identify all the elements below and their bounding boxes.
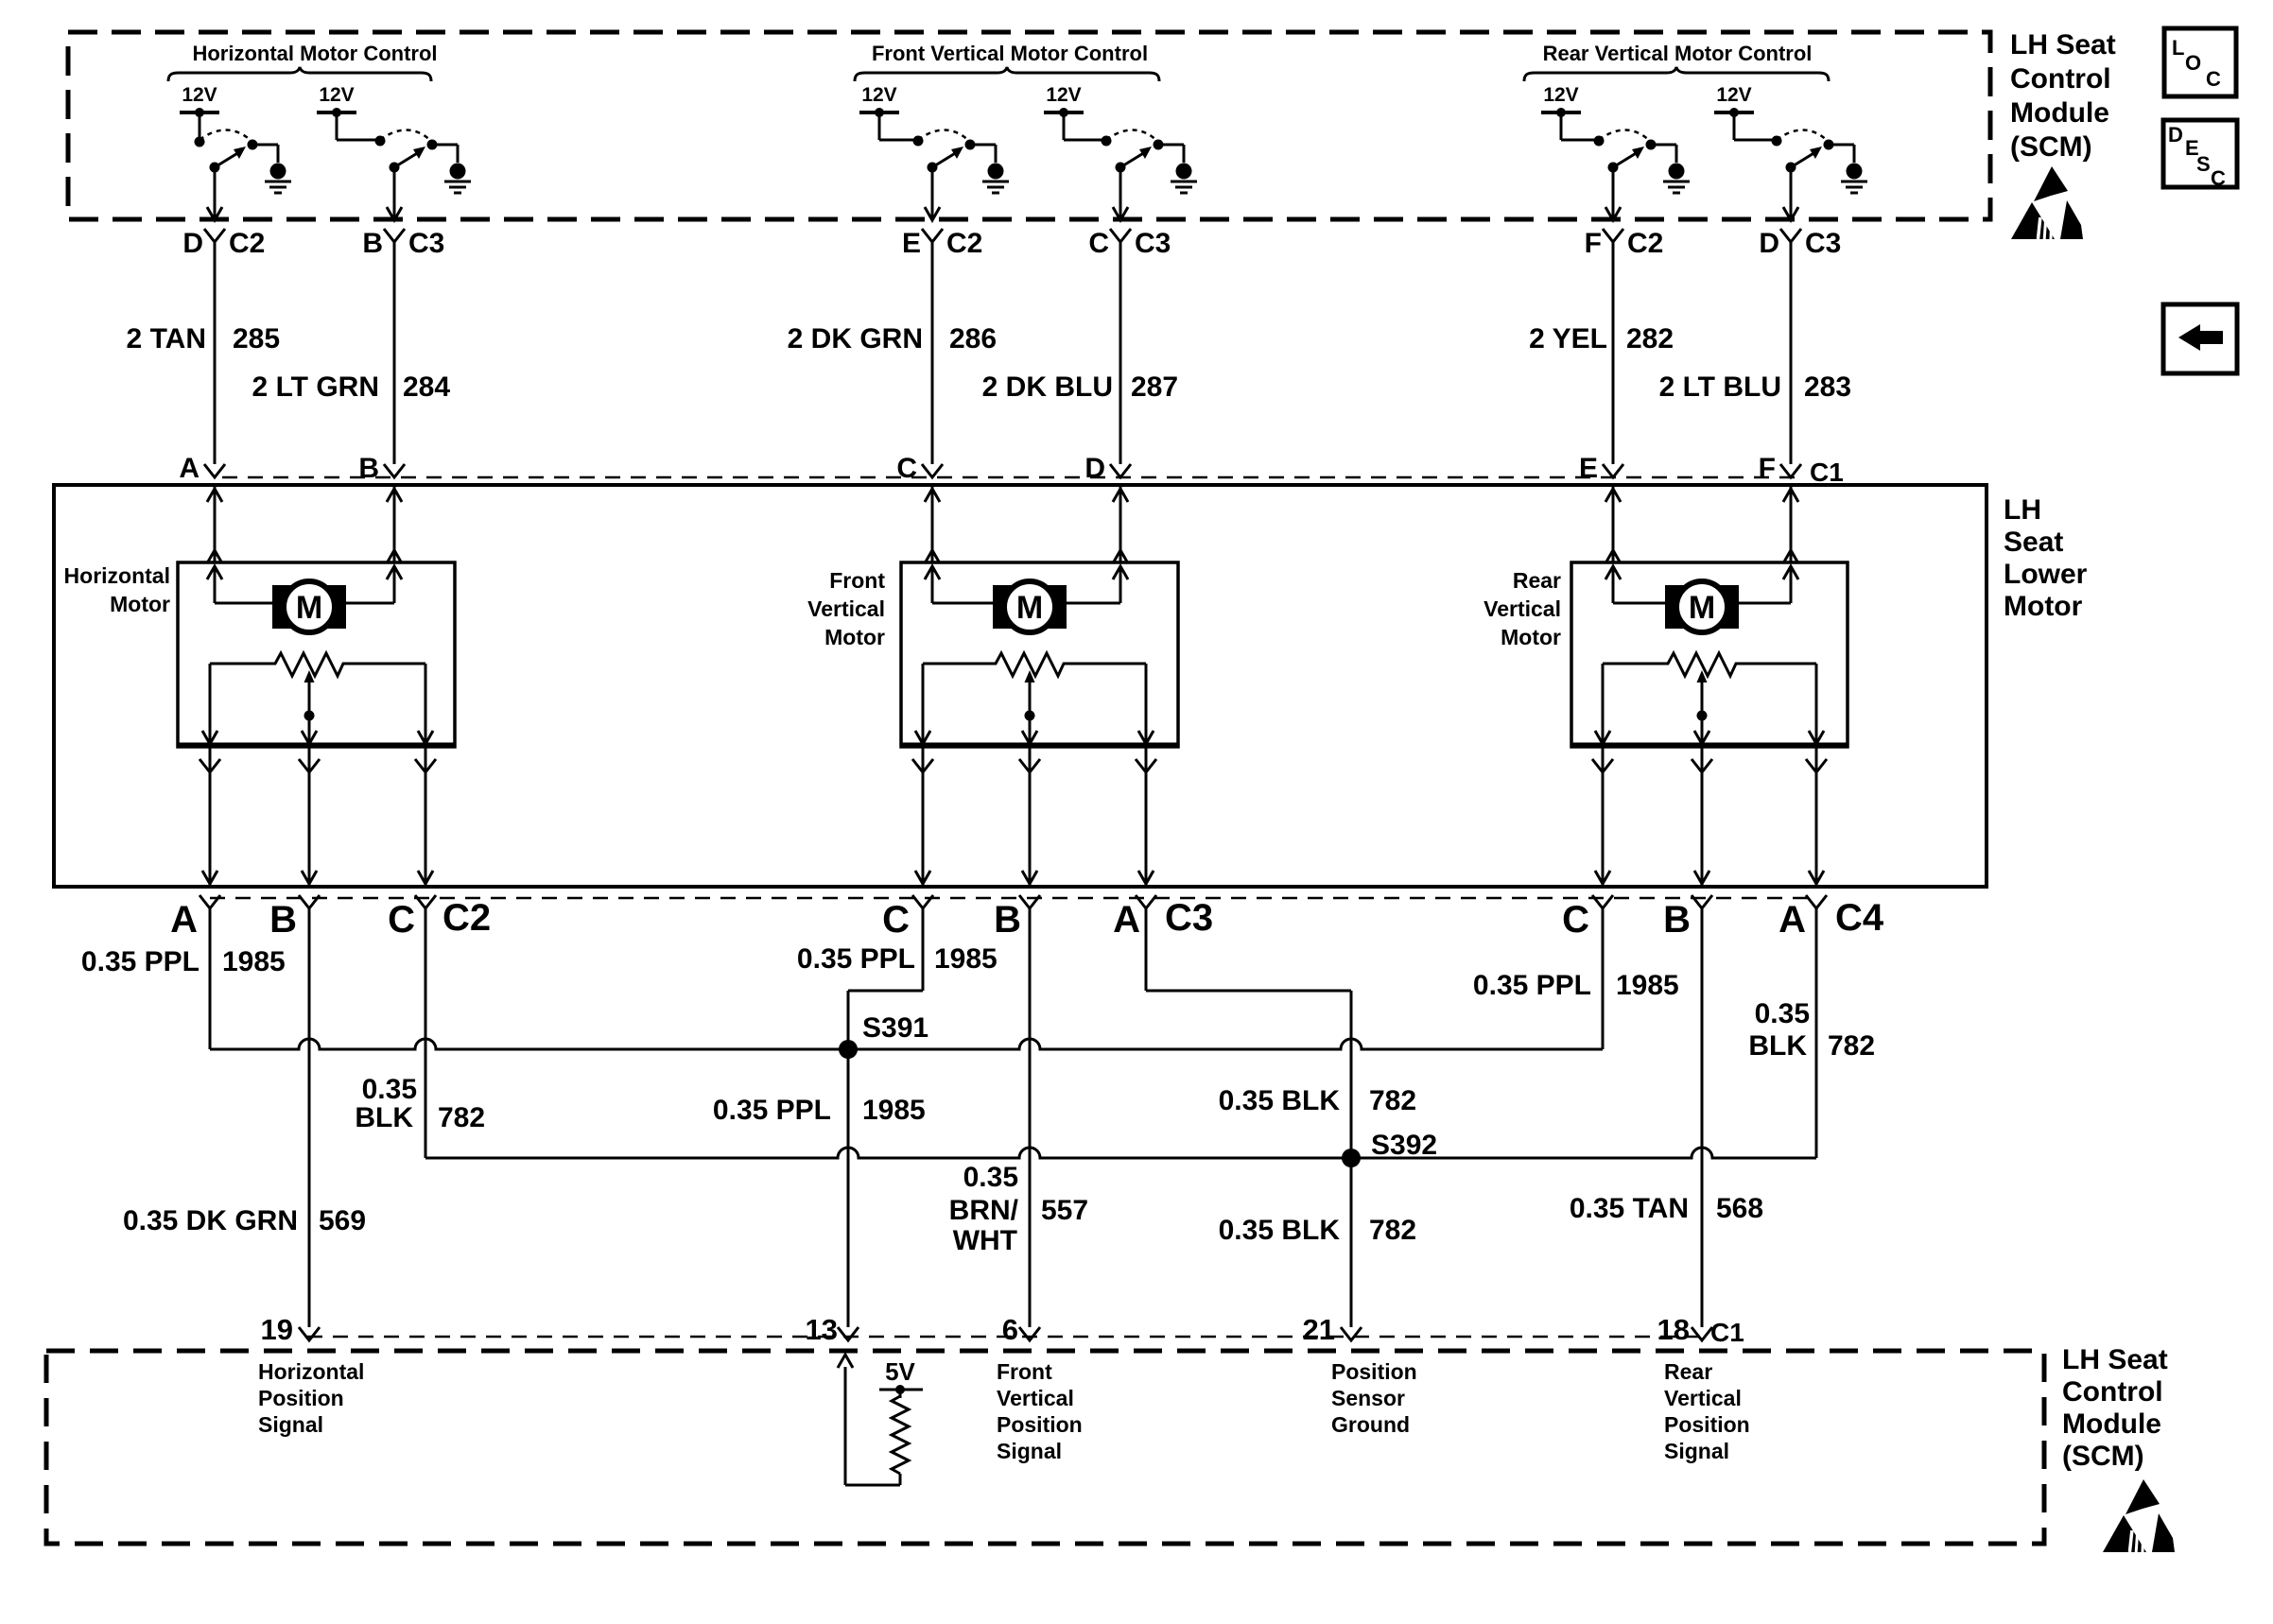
svg-text:C2: C2: [946, 228, 982, 259]
svg-text:782: 782: [1828, 1030, 1875, 1062]
svg-text:19: 19: [261, 1313, 293, 1346]
svg-text:LH Seat: LH Seat: [2010, 29, 2116, 60]
svg-text:569: 569: [319, 1205, 366, 1236]
svg-text:Position: Position: [1664, 1412, 1750, 1437]
svg-text:A: A: [179, 453, 200, 484]
svg-text:(SCM): (SCM): [2062, 1441, 2144, 1472]
svg-text:12V: 12V: [1716, 84, 1751, 106]
svg-text:C3: C3: [1165, 897, 1213, 939]
svg-text:2 DK GRN: 2 DK GRN: [788, 323, 923, 354]
svg-text:Position: Position: [258, 1386, 344, 1410]
svg-text:2 TAN: 2 TAN: [127, 323, 206, 354]
svg-text:C: C: [896, 453, 917, 484]
svg-text:C1: C1: [1810, 458, 1844, 487]
svg-text:L: L: [2172, 36, 2184, 60]
svg-text:S392: S392: [1371, 1130, 1437, 1161]
svg-text:WHT: WHT: [953, 1225, 1017, 1256]
svg-text:Position: Position: [1331, 1359, 1417, 1384]
svg-text:A: A: [1778, 899, 1806, 941]
svg-text:LH: LH: [2004, 494, 2041, 526]
svg-text:Horizontal Motor Control: Horizontal Motor Control: [192, 42, 437, 65]
svg-text:0.35 TAN: 0.35 TAN: [1570, 1193, 1689, 1224]
svg-text:285: 285: [233, 323, 280, 354]
svg-text:18: 18: [1657, 1313, 1690, 1346]
svg-text:1985: 1985: [222, 946, 286, 977]
svg-text:C2: C2: [442, 897, 491, 939]
svg-text:568: 568: [1716, 1193, 1763, 1224]
svg-text:Position: Position: [997, 1412, 1083, 1437]
svg-text:B: B: [358, 453, 379, 484]
svg-text:1985: 1985: [1616, 970, 1679, 1001]
svg-text:Motor: Motor: [824, 625, 885, 649]
svg-text:(SCM): (SCM): [2010, 131, 2092, 163]
svg-text:C1: C1: [1710, 1318, 1744, 1347]
svg-text:Rear: Rear: [1513, 568, 1561, 593]
svg-text:C2: C2: [229, 228, 265, 259]
svg-text:Signal: Signal: [997, 1439, 1062, 1463]
svg-text:C: C: [882, 899, 910, 941]
svg-text:12V: 12V: [861, 84, 896, 106]
svg-text:2 LT GRN: 2 LT GRN: [252, 371, 379, 403]
svg-text:782: 782: [1369, 1215, 1416, 1246]
svg-text:0.35 PPL: 0.35 PPL: [1473, 970, 1591, 1001]
svg-text:BLK: BLK: [1748, 1030, 1807, 1062]
svg-text:C: C: [1562, 899, 1589, 941]
svg-text:Lower: Lower: [2004, 559, 2088, 590]
svg-text:C2: C2: [1627, 228, 1663, 259]
svg-text:B: B: [994, 899, 1021, 941]
svg-text:782: 782: [438, 1102, 485, 1133]
svg-text:0.35 DK GRN: 0.35 DK GRN: [123, 1205, 298, 1236]
svg-text:2 LT BLU: 2 LT BLU: [1659, 371, 1781, 403]
svg-text:Control: Control: [2010, 63, 2111, 95]
svg-text:21: 21: [1303, 1313, 1335, 1346]
svg-text:A: A: [170, 899, 198, 941]
svg-text:283: 283: [1804, 371, 1851, 403]
svg-text:BLK: BLK: [355, 1102, 413, 1133]
svg-text:Front: Front: [997, 1359, 1052, 1384]
svg-text:E: E: [902, 228, 921, 259]
svg-text:Module: Module: [2010, 97, 2109, 129]
svg-text:13: 13: [806, 1313, 838, 1346]
svg-text:O: O: [2185, 51, 2201, 75]
svg-text:286: 286: [949, 323, 997, 354]
svg-text:2 DK BLU: 2 DK BLU: [982, 371, 1113, 403]
svg-text:0.35 PPL: 0.35 PPL: [81, 946, 200, 977]
svg-text:D: D: [2168, 123, 2183, 147]
svg-text:C4: C4: [1835, 897, 1884, 939]
svg-text:D: D: [1084, 453, 1105, 484]
svg-text:M: M: [1016, 590, 1043, 626]
svg-text:6: 6: [1002, 1313, 1018, 1346]
svg-text:12V: 12V: [1543, 84, 1578, 106]
svg-text:1985: 1985: [862, 1095, 926, 1126]
svg-text:Front Vertical Motor Control: Front Vertical Motor Control: [872, 42, 1148, 65]
svg-text:557: 557: [1041, 1195, 1088, 1226]
svg-text:D: D: [182, 228, 203, 259]
svg-text:M: M: [296, 590, 322, 626]
svg-text:Vertical: Vertical: [1664, 1386, 1742, 1410]
svg-text:284: 284: [403, 371, 450, 403]
svg-text:C: C: [1088, 228, 1109, 259]
svg-text:M: M: [1689, 590, 1715, 626]
svg-text:282: 282: [1626, 323, 1674, 354]
svg-text:E: E: [1579, 453, 1598, 484]
svg-text:0.35: 0.35: [362, 1074, 417, 1105]
svg-text:1985: 1985: [934, 943, 998, 975]
svg-text:Ground: Ground: [1331, 1412, 1410, 1437]
svg-text:S391: S391: [862, 1012, 928, 1044]
svg-text:12V: 12V: [319, 84, 354, 106]
svg-text:C: C: [388, 899, 415, 941]
svg-text:B: B: [269, 899, 297, 941]
svg-text:Signal: Signal: [258, 1412, 323, 1437]
svg-text:C: C: [2211, 166, 2226, 190]
svg-text:0.35: 0.35: [963, 1162, 1018, 1193]
svg-text:S: S: [2196, 152, 2211, 176]
svg-text:Rear Vertical Motor Control: Rear Vertical Motor Control: [1543, 42, 1813, 65]
svg-text:Control: Control: [2062, 1376, 2163, 1408]
svg-text:B: B: [362, 228, 383, 259]
svg-text:5V: 5V: [885, 1357, 915, 1386]
svg-text:Vertical: Vertical: [1484, 596, 1561, 621]
svg-text:F: F: [1759, 453, 1776, 484]
svg-text:0.35 PPL: 0.35 PPL: [713, 1095, 831, 1126]
svg-text:B: B: [1663, 899, 1691, 941]
svg-text:Horizontal: Horizontal: [258, 1359, 364, 1384]
svg-text:Seat: Seat: [2004, 527, 2063, 558]
svg-text:12V: 12V: [1046, 84, 1081, 106]
svg-text:Motor: Motor: [2004, 591, 2083, 622]
svg-text:Vertical: Vertical: [997, 1386, 1074, 1410]
svg-text:782: 782: [1369, 1085, 1416, 1116]
svg-text:C3: C3: [408, 228, 444, 259]
svg-text:0.35 PPL: 0.35 PPL: [797, 943, 915, 975]
svg-text:0.35 BLK: 0.35 BLK: [1219, 1085, 1341, 1116]
svg-text:Motor: Motor: [1501, 625, 1561, 649]
svg-text:2 YEL: 2 YEL: [1529, 323, 1607, 354]
svg-text:Vertical: Vertical: [807, 596, 885, 621]
svg-text:Signal: Signal: [1664, 1439, 1729, 1463]
svg-text:F: F: [1585, 228, 1602, 259]
svg-text:0.35 BLK: 0.35 BLK: [1219, 1215, 1341, 1246]
svg-text:D: D: [1759, 228, 1779, 259]
svg-text:C3: C3: [1135, 228, 1171, 259]
svg-text:Module: Module: [2062, 1408, 2161, 1440]
svg-text:Sensor: Sensor: [1331, 1386, 1405, 1410]
svg-text:LH Seat: LH Seat: [2062, 1344, 2168, 1375]
svg-text:287: 287: [1131, 371, 1178, 403]
svg-text:C3: C3: [1805, 228, 1841, 259]
svg-text:Horizontal: Horizontal: [64, 563, 170, 588]
svg-text:BRN/: BRN/: [949, 1195, 1019, 1226]
svg-text:Front: Front: [829, 568, 885, 593]
svg-text:Rear: Rear: [1664, 1359, 1712, 1384]
svg-text:A: A: [1113, 899, 1140, 941]
svg-text:12V: 12V: [182, 84, 217, 106]
svg-text:0.35: 0.35: [1755, 998, 1810, 1029]
svg-text:Motor: Motor: [110, 592, 170, 616]
svg-text:C: C: [2206, 67, 2221, 91]
